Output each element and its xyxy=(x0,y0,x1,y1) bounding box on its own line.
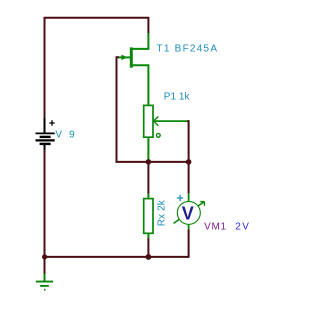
svg-text:VM1: VM1 xyxy=(204,221,226,232)
potentiometer P1 wiper arrowhead xyxy=(154,116,159,125)
battery V plus sign xyxy=(49,120,54,125)
voltmeter VM1 plus sign xyxy=(177,195,183,201)
svg-text:Rx 2k: Rx 2k xyxy=(156,199,167,226)
transistor T1 source pin and wire to P1 xyxy=(132,65,148,105)
wire: mid rail junction down to resistor xyxy=(147,162,149,194)
ground bar 1 xyxy=(36,281,53,283)
voltmeter VM1 bottom pin xyxy=(188,224,190,229)
wire: gate run, mid rail, wiper riser xyxy=(117,57,189,162)
wire: battery bottom to ground junction xyxy=(44,150,46,274)
voltmeter VM1 arrowhead barbs xyxy=(200,202,204,206)
junction dot at P1 bottom on mid rail xyxy=(146,159,152,165)
wire: resistor bottom to bottom rail xyxy=(147,238,149,257)
transistor T1 gate arrow xyxy=(121,55,127,61)
wire: wiper junction down to voltmeter xyxy=(188,162,190,194)
wire: voltmeter bottom and bottom rail xyxy=(45,229,189,257)
battery V plate short 1 xyxy=(40,136,51,138)
potentiometer P1 wiper line xyxy=(153,120,187,122)
svg-text:V: V xyxy=(182,203,194,223)
voltmeter VM1 top pin xyxy=(188,193,190,201)
battery V plate long 1 xyxy=(36,132,55,134)
resistor Rx bottom pin xyxy=(147,233,149,238)
potentiometer P1 bottom pin xyxy=(147,137,149,160)
potentiometer P1 body xyxy=(144,105,153,137)
voltmeter VM1 circle xyxy=(177,201,200,224)
wire: top rail and left/right risers xyxy=(45,18,149,118)
svg-text:P1 1k: P1 1k xyxy=(164,92,191,103)
transistor T1 channel bar xyxy=(130,47,133,67)
ground stub xyxy=(44,274,46,282)
resistor Rx top pin xyxy=(147,193,149,198)
svg-text:V 9: V 9 xyxy=(55,129,75,140)
resistor Rx body xyxy=(144,199,153,234)
svg-text:2V: 2V xyxy=(235,221,249,232)
battery V plate long 2 xyxy=(36,139,55,141)
battery V bottom pin xyxy=(44,144,46,150)
svg-text:T1 BF245A: T1 BF245A xyxy=(157,44,218,55)
junction dot at wiper riser on mid rail xyxy=(186,159,192,165)
voltmeter VM1 arrow xyxy=(174,202,205,224)
ground bar 2 xyxy=(40,285,49,287)
transistor T1 gate pin xyxy=(119,56,130,58)
junction dot resistor bottom on bottom rail xyxy=(146,254,152,260)
junction dot ground branch on bottom rail xyxy=(42,254,47,259)
battery V top pin xyxy=(44,117,46,133)
transistor T1 drain pin xyxy=(132,33,148,49)
battery V plate short 2 xyxy=(40,143,51,145)
potentiometer P1 stop circle xyxy=(156,133,160,137)
ground bar 3 xyxy=(44,289,46,291)
